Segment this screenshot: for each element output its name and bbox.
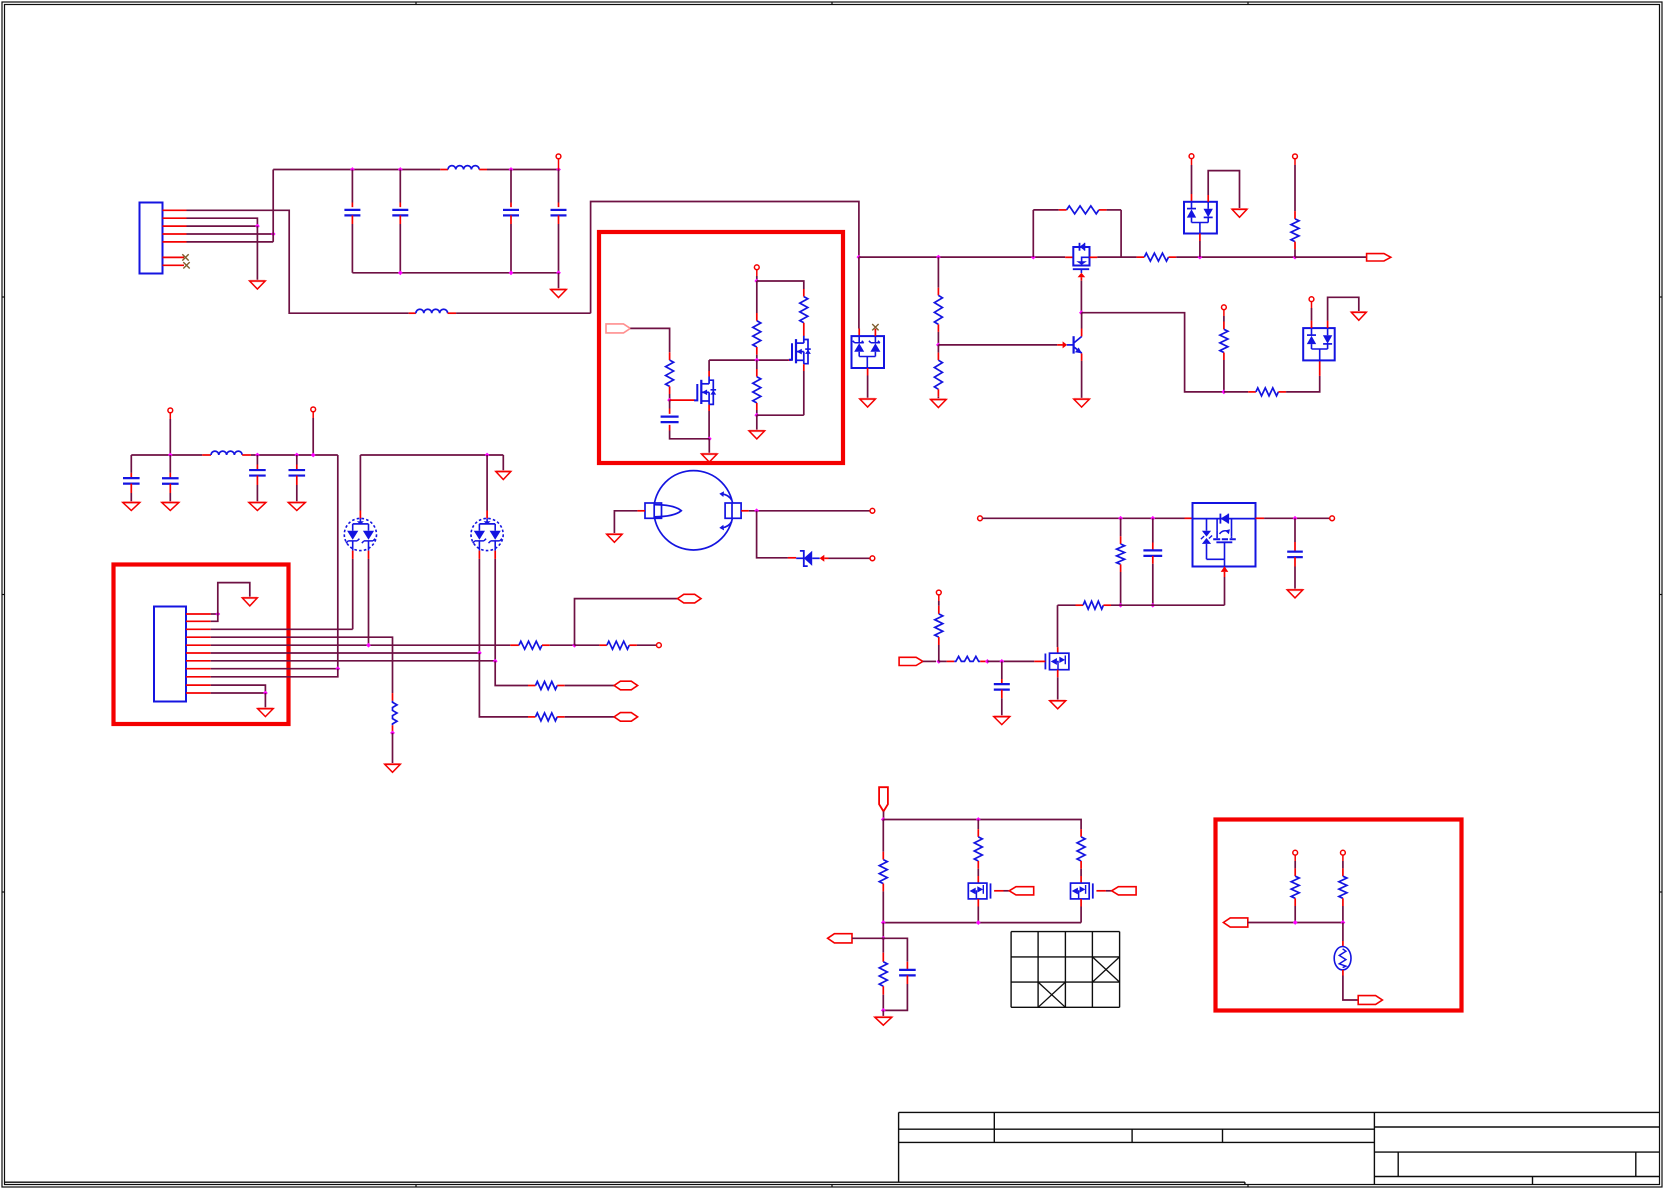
red highlight box 1 <box>599 232 843 463</box>
ground under C19 <box>1287 590 1303 598</box>
terminal T10 <box>657 643 662 648</box>
junction branch 2 top <box>976 817 981 822</box>
junction R26 bottom <box>1341 920 1346 925</box>
M3 gate stub <box>1096 890 1106 892</box>
J2 pin 3 stub <box>186 628 211 630</box>
wire gate feedback row <box>1111 604 1225 606</box>
wire P4 to node <box>883 811 885 819</box>
M2 source stub <box>977 899 979 907</box>
capacitor C1 <box>351 170 353 203</box>
wire P1 to R1 <box>630 328 669 352</box>
J2 pin 10 stub <box>186 684 211 686</box>
ground at motor <box>607 534 622 542</box>
gate input port P3 <box>899 657 923 665</box>
junction J1 pin3 node <box>255 224 260 229</box>
M2 gate stub <box>994 890 1003 892</box>
M3 drain stub <box>1080 876 1082 883</box>
wire J2 pin8 row <box>211 668 338 670</box>
transistor Q2 nmos <box>789 336 811 364</box>
J2 pin 8 stub <box>186 668 211 670</box>
junction bottom divider <box>754 413 759 418</box>
J1 pin 2 stub <box>163 217 187 219</box>
wire Q3 gate down to node <box>1080 281 1082 313</box>
dual diode package D1 <box>852 336 885 368</box>
wire J2 pin5 row <box>211 644 511 646</box>
motor right terminal <box>725 503 741 518</box>
supply port P4 pointing down <box>879 787 888 811</box>
junction C17 row <box>294 453 299 458</box>
TVS1 right pin <box>368 551 370 559</box>
terminal T15 gate pullup <box>936 590 941 595</box>
motor right pin stub <box>741 510 749 512</box>
wire sense bottom row <box>883 922 1081 924</box>
capacitor C2 <box>399 170 401 203</box>
wire rail to output port <box>1295 256 1367 258</box>
wire bottom bus to ground <box>558 273 560 290</box>
J1 pin 1 stub <box>163 209 187 211</box>
wire emitter to ground <box>1081 361 1083 399</box>
wire Q1 source down <box>708 411 710 439</box>
junction T8 row <box>168 453 173 458</box>
capacitor C17 <box>296 455 298 465</box>
feedback loop wire right <box>1120 210 1122 257</box>
ground of TVS rail <box>496 472 511 480</box>
terminal T16 <box>1293 850 1298 855</box>
transistor M2 nmos <box>968 883 990 899</box>
resistor R14 <box>575 644 600 646</box>
junction output cap <box>1293 516 1298 521</box>
junction Q1 source / C5 <box>707 436 712 441</box>
J2 pin 6 stub <box>186 652 211 654</box>
no-connect x on J1 pin 6 <box>182 254 188 260</box>
ground right of D4 <box>1351 312 1366 320</box>
red gate arrow of Q3 <box>1078 273 1086 278</box>
motor left pin stub <box>637 510 645 512</box>
junction base node <box>936 343 941 348</box>
junction rail D3 pin <box>1198 255 1203 260</box>
ground under Q5 <box>1050 701 1066 709</box>
base divider upper resistor R8 <box>936 255 941 260</box>
ground under divider <box>931 400 947 408</box>
TVS1 top pin stub <box>359 455 361 511</box>
Q2 gate stub <box>788 359 792 361</box>
D4 right pin to ground wire <box>1327 321 1329 329</box>
wire Q5 source to ground <box>1057 677 1059 701</box>
wire R14 to terminal <box>637 644 657 646</box>
base divider lower resistor R9 <box>937 345 939 353</box>
D1 NC stub with x <box>874 329 876 336</box>
wire pin7 down and right <box>495 661 528 685</box>
terminal T8 <box>168 408 173 413</box>
wire J1 pin1 to lower rail <box>187 210 409 313</box>
wire to thermistor <box>1342 923 1344 942</box>
junction top bus C1 <box>350 167 355 172</box>
wire U1 bottom pin down <box>1224 577 1226 605</box>
wire D5 to terminal <box>829 557 871 559</box>
dual diode package D4 <box>1303 328 1335 360</box>
J2 pin 9 stub <box>186 676 211 678</box>
series resistor R6 on rail <box>1137 256 1145 258</box>
truth table grid <box>1011 932 1120 1008</box>
tvs diode pair DZ1 <box>344 518 376 550</box>
inductor L3 <box>202 454 211 456</box>
resistor R17 <box>1120 518 1122 536</box>
load switch U1 left pin stub <box>1185 517 1193 519</box>
ground right of D3 <box>1232 209 1247 217</box>
junction gate-collector node <box>1079 310 1084 315</box>
wire R11 to D4 <box>1286 376 1320 392</box>
U1 right pin stub <box>1256 517 1265 519</box>
wire P7 to node <box>852 937 883 939</box>
junction bottom bus C2 <box>398 270 403 275</box>
junction R20 out <box>985 659 990 664</box>
wire J1 pin3 <box>187 225 258 227</box>
junction sense output <box>881 936 886 941</box>
ground under Q4 <box>1074 399 1090 407</box>
wire J1 pin2 down to ground net <box>187 218 258 226</box>
ground under J1 <box>250 281 266 289</box>
capacitor C19 output <box>1294 518 1296 542</box>
feedback loop wire left <box>1032 210 1034 257</box>
oval port O1 <box>678 594 702 603</box>
capacitor C4 <box>558 170 560 203</box>
junction under R12 <box>390 731 395 736</box>
no-connect x on J1 pin 7 <box>183 262 189 268</box>
wire filter output down <box>337 455 339 669</box>
wire J1 pin4 to VCC bus <box>187 233 274 235</box>
wire pin9 to supply <box>211 669 338 677</box>
wire T2 node to R4 branch <box>757 281 804 289</box>
capacitor C16 <box>256 455 258 465</box>
resistor R23 <box>1080 829 1082 837</box>
title block <box>5 1112 1660 1184</box>
wire T1 to bus <box>558 159 560 170</box>
series resistor R20 gate <box>939 660 947 662</box>
pmos pass transistor Q3 <box>1065 243 1097 273</box>
wire pin6 down and right <box>479 653 528 717</box>
wire J2 pin11 <box>211 692 266 694</box>
capacitor C3 <box>510 170 512 203</box>
wire M2 source down <box>977 907 979 923</box>
resistor R3 <box>756 360 758 369</box>
wire switch input rail <box>982 517 1184 519</box>
gate port P6 <box>1112 887 1137 895</box>
junction J2 pin1 <box>215 612 220 617</box>
ground of cap bank <box>551 290 567 298</box>
thermistor output port P8 <box>1223 918 1247 927</box>
J1 pin 3 stub <box>163 225 187 227</box>
terminal T14 switch output <box>1330 516 1335 521</box>
wire R20 to gate <box>987 660 1034 662</box>
wire top bus left segment <box>273 169 440 171</box>
terminal T6 pullup2 <box>1222 305 1227 310</box>
ground for J2 pins 10-11 <box>258 709 274 717</box>
Q2 drain stub <box>803 331 805 336</box>
wire R16 to port <box>565 685 614 687</box>
D1 bottom pin to ground <box>867 368 869 376</box>
wire motor node down to diode <box>757 511 788 558</box>
oval port O2 <box>614 713 638 722</box>
inductor L1 on top bus <box>440 169 448 171</box>
wire J2 pin10 <box>211 685 266 693</box>
wire T9 down <box>312 412 314 418</box>
gate stub of Q1 <box>670 399 695 401</box>
resistor R18 gate row <box>1058 604 1076 606</box>
Q4 collector stub <box>1081 329 1083 337</box>
red arrow at D5 anode <box>820 555 825 562</box>
wire junction to ground <box>708 439 710 454</box>
dual diode package D3 <box>1184 202 1217 234</box>
ground divider box1 <box>749 431 765 439</box>
junction TVS2 top <box>485 453 490 458</box>
wire Q1 drain to gate node of Q2 <box>708 360 710 371</box>
wire to ground box1 <box>756 415 758 431</box>
wire lower rail up to node at x858 <box>591 202 859 314</box>
wire cap bank bottom bus <box>352 272 558 274</box>
capacitor C5 <box>669 400 671 408</box>
resistor R13 <box>510 644 519 646</box>
wire thermistor to port <box>1342 970 1344 976</box>
J1 NC pin 6 stub <box>163 256 185 258</box>
wire top bus right segment <box>487 169 559 171</box>
terminal T5 of D3 <box>1189 154 1194 159</box>
terminal T2 in box 1 <box>754 265 759 270</box>
TVS2 left pin <box>478 551 480 559</box>
J2 pin 1 stub <box>186 613 211 615</box>
wire Q2 source down <box>803 371 805 415</box>
wire supply row <box>883 820 1081 830</box>
ground under C20 <box>994 717 1010 725</box>
resistor R16 <box>528 685 536 687</box>
wire M3 source down <box>1080 907 1082 923</box>
junction rail at x859 <box>857 255 862 260</box>
junction R25 bottom <box>1293 920 1298 925</box>
motor left terminal <box>645 503 681 518</box>
wire filter row right <box>251 454 338 456</box>
capacitor C20 <box>1001 661 1003 679</box>
Q4 emitter stub <box>1081 353 1083 361</box>
Q5 gate stub <box>1034 660 1045 662</box>
junction bottom bus C3 <box>509 270 514 275</box>
D3 right pin to ground wire <box>1207 195 1209 202</box>
sense output port P7 <box>828 934 852 943</box>
wire M3 gate to port <box>1106 890 1112 892</box>
junction C18 bottom <box>1150 603 1155 608</box>
dual diode D1 feed wire <box>858 257 860 328</box>
wire filter row left <box>131 454 202 456</box>
thermistor RT1 <box>1334 947 1351 970</box>
junction pin6 TVS2 left <box>477 651 482 656</box>
wire R15 to port <box>565 716 614 718</box>
thermistor bottom port P9 <box>1358 996 1382 1005</box>
junction C20 tap <box>999 659 1004 664</box>
capacitor C18 <box>1152 518 1154 542</box>
filter capacitor C21 <box>883 938 907 962</box>
junction motor output <box>754 508 759 513</box>
resistor R1 <box>669 352 671 360</box>
transistor Q5 nmos <box>1045 653 1069 670</box>
junction top bus C4 <box>556 167 561 172</box>
junction pin7 TVS2 right <box>493 659 498 664</box>
wire J2 pin6 row <box>211 652 480 654</box>
output port P2 <box>1367 254 1391 261</box>
ground under C16 <box>249 503 266 511</box>
input port P1 <box>606 324 630 333</box>
zener diode D5 <box>788 551 820 566</box>
junction bottom bus C4 <box>556 270 561 275</box>
TVS2 top pin stub <box>486 455 488 511</box>
junction R17 bottom <box>1118 603 1123 608</box>
junction R1-gate-C5 <box>667 398 672 403</box>
wire rail to series resistor <box>1097 256 1136 258</box>
junction supply node <box>881 817 886 822</box>
terminal T17 <box>1341 850 1346 855</box>
junction C18 top <box>1150 516 1155 521</box>
junction rail feedback left <box>1031 255 1036 260</box>
wire sense node down <box>882 923 884 939</box>
wire branch up to port row <box>575 599 678 646</box>
ground for J2 pins 1-2 <box>242 598 257 606</box>
wire J2 pin3 to TVS1 <box>211 628 353 630</box>
pull-up resistor R7 <box>1293 154 1298 159</box>
J1 pin 5 stub <box>163 241 187 243</box>
wire to ground bottom <box>882 1010 884 1017</box>
wire VCC bus vertical <box>272 170 274 242</box>
junction R17 top <box>1118 516 1123 521</box>
inductor L2 <box>409 312 416 314</box>
junction rail pullup <box>1293 255 1298 260</box>
wire M2 gate to port <box>1004 890 1010 892</box>
junction T2 node <box>754 279 759 284</box>
J2 pin 7 stub <box>186 660 211 662</box>
wire base node to Q4 base <box>938 344 1057 346</box>
junction gate node <box>936 659 941 664</box>
wire node to second stage <box>1081 313 1224 392</box>
ground under D1 <box>860 399 876 407</box>
junction top bus C2 <box>398 167 403 172</box>
terminal T12 diode <box>870 556 875 561</box>
sense resistor R21 <box>882 820 884 852</box>
resistor R12 <box>392 693 394 701</box>
wire R13 to junction <box>550 644 575 646</box>
transistor M3 nmos <box>1071 883 1093 899</box>
junction pins 10-11 <box>263 691 268 696</box>
feedback resistor R5 <box>1033 209 1059 211</box>
table X mark row2 col4 <box>1092 957 1119 982</box>
wire main rail <box>859 256 1065 258</box>
junction filter bottom <box>881 1008 886 1013</box>
ground under C14 <box>123 503 140 511</box>
wire bottom node to Q2 source <box>757 414 804 416</box>
junction top bus C3 <box>509 167 514 172</box>
wire motor left to ground <box>614 511 637 535</box>
resistor R26 <box>1342 855 1344 861</box>
terminal T9 <box>311 407 316 412</box>
wire lower rail right of inductor L2 <box>456 312 590 314</box>
wire J2 pin1 to vertical <box>211 613 218 615</box>
Q5 source stub <box>1057 670 1059 678</box>
capacitor C15 <box>169 455 171 473</box>
junction C16 row <box>255 453 260 458</box>
connector J1 <box>140 203 163 274</box>
resistor R25 <box>1294 855 1296 861</box>
junction sense node <box>881 920 886 925</box>
capacitor C14 <box>130 455 132 473</box>
junction pin8 supply <box>335 666 340 671</box>
series resistor R11 <box>1248 391 1256 393</box>
terminal T1 on top bus <box>556 154 561 159</box>
tvs diode pair DZ2 <box>471 518 503 550</box>
junction second stage node <box>1222 390 1227 395</box>
wire J1 pin5 <box>187 241 274 243</box>
wire J2 pin4 to R12 <box>211 637 393 693</box>
terminal T7 of D4 <box>1309 297 1314 302</box>
Q2 source stub <box>803 364 805 371</box>
wire pins 1-2 to ground <box>218 583 250 614</box>
Q1 drain stub <box>708 371 710 377</box>
terminal T11 motor <box>870 508 875 513</box>
D3 bottom pin <box>1199 234 1201 242</box>
load switch block U1 <box>1193 503 1256 567</box>
table X mark row3 col2 <box>1038 982 1065 1007</box>
wire motor right to terminal <box>749 510 870 512</box>
resistor R15 <box>528 716 536 718</box>
M3 source stub <box>1080 899 1082 907</box>
junction pin4 VCC <box>271 232 276 237</box>
wire pin3 node to ground <box>256 226 258 281</box>
red highlight box 2 <box>114 565 289 725</box>
J2 pin 2 stub <box>186 620 211 622</box>
junction M2 source <box>976 920 981 925</box>
wire P8 row <box>1248 922 1343 924</box>
wire T8 down <box>169 413 171 419</box>
Q1 source stub <box>708 405 710 411</box>
J1 pin 4 stub <box>163 233 187 235</box>
gate port P5 <box>1009 887 1033 895</box>
wire R12 to ground <box>392 733 394 764</box>
M2 drain stub <box>977 876 979 883</box>
ground under R12 <box>385 764 401 772</box>
transistor Q1 nmos <box>694 377 716 405</box>
wire rail to D2 junction <box>1176 256 1295 258</box>
gate pull-up resistor R19 <box>938 595 940 601</box>
wire T7 to D4 left pin <box>1311 302 1313 308</box>
pull-up resistor R10 <box>1223 310 1225 316</box>
wire U1 output <box>1264 517 1330 519</box>
junction T9 row <box>311 453 316 458</box>
wire gate row to Q5 drain <box>1057 605 1059 647</box>
wire TVS rail to ground <box>502 455 504 472</box>
oval port O3 <box>614 681 638 690</box>
J1 NC pin 7 stub <box>163 264 185 266</box>
junction pin5 TVS1 right <box>366 643 371 648</box>
wire node to series resistor R11 <box>1224 391 1248 393</box>
red highlight box 3 <box>1216 820 1462 1011</box>
wire pins 10-11 to ground <box>264 693 266 709</box>
transistor Q4 npn <box>1067 336 1082 353</box>
J2 pin 4 stub <box>186 636 211 638</box>
J2 pin 11 stub <box>186 692 211 694</box>
filter resistor R24 <box>882 938 884 952</box>
ground under Q1 <box>702 454 718 462</box>
D4 bottom pin stub <box>1319 360 1321 376</box>
J2 pin 5 stub <box>186 644 211 646</box>
wire P3 to gate node <box>923 660 936 662</box>
ground under C17 <box>288 503 305 511</box>
resistor R2 <box>756 281 758 313</box>
Q4 base stub with arrow <box>1057 344 1063 346</box>
TVS2 right pin <box>494 551 496 559</box>
